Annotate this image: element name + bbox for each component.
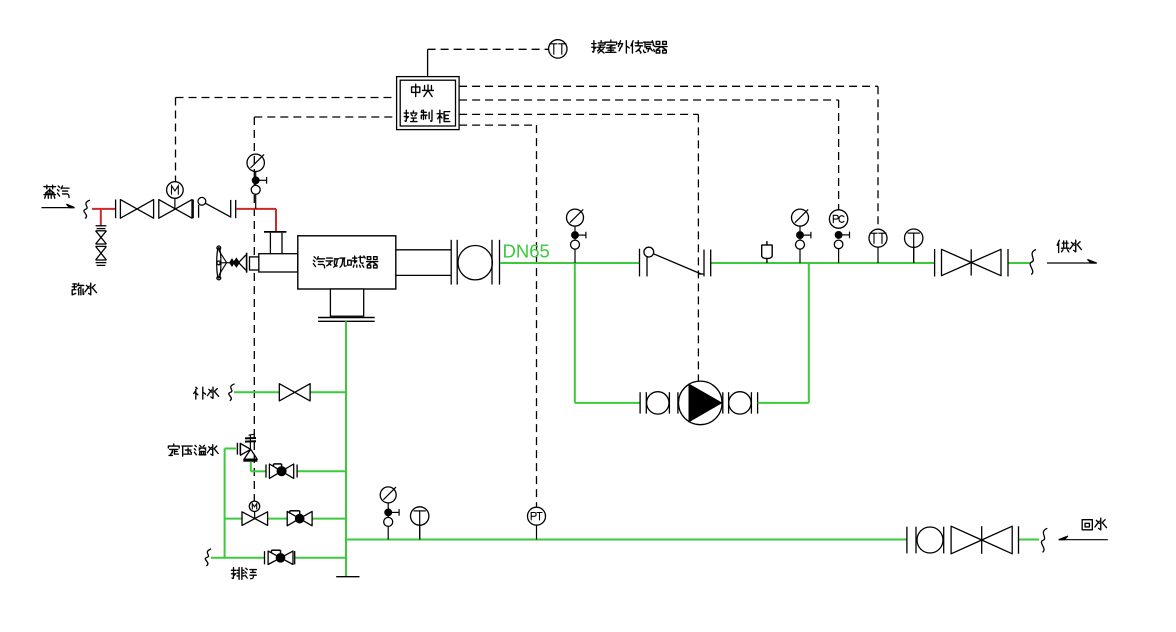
- return flow arrow: [1059, 539, 1108, 541]
- label bu-shui (make-up water): [194, 387, 206, 399]
- signal wire cabinet->pump riser (dashed): [459, 113, 698, 115]
- thermometer T on return: [419, 525, 421, 539]
- automatic air vent: [766, 241, 768, 245]
- heater pedestal: [330, 289, 363, 316]
- cabinet label line2 (kong-zhi-gui): [404, 110, 417, 121]
- outlet flange pair 2: [491, 240, 493, 285]
- steam pipe to heater (red): [236, 208, 276, 210]
- gate valve V1 (steam): [120, 200, 153, 219]
- handwheel spokes: [219, 251, 227, 263]
- pipe break squiggle (steam inlet): [84, 200, 90, 218]
- pump suction flange 2: [668, 392, 670, 413]
- return gate valve: [951, 526, 1012, 554]
- overflow header (green): [225, 448, 236, 450]
- heater outlet pipe: [396, 249, 451, 251]
- heater steam inlet nozzle: [269, 233, 271, 254]
- pressure gauge stack on steam pipe: [247, 154, 264, 171]
- return pipe end (green): [1019, 539, 1040, 541]
- handwheel: [217, 248, 221, 279]
- motor actuator M (overflow): [254, 511, 256, 518]
- central control cabinet outer box: [397, 77, 460, 130]
- supply pipe DN65 (green): [500, 262, 640, 264]
- pressure transmitter PT: [536, 525, 538, 539]
- pump discharge flange: [722, 392, 724, 413]
- relief valve body: [241, 444, 258, 460]
- label ding-ya-yi-shui (pressure overflow): [168, 444, 179, 455]
- relief valve seat bar: [243, 460, 257, 462]
- label zheng-qi (steam): [44, 185, 56, 198]
- heater valve flange bar: [246, 253, 248, 273]
- circulation pump: [679, 381, 723, 425]
- motor actuator M of V2: [174, 198, 176, 209]
- heater valve cone: [239, 255, 246, 270]
- pump loop pipe left (green): [574, 263, 576, 403]
- outlet flexible joint: [458, 246, 492, 280]
- label shu-shui (drain): [72, 283, 84, 295]
- thermometer T on supply: [913, 247, 915, 263]
- return flexible joint: [917, 527, 943, 553]
- overflow motor valve: [242, 512, 268, 526]
- supply pipe mid (green): [711, 262, 935, 264]
- pipe break squiggle (supply outlet): [1030, 250, 1036, 275]
- steam pipe (red): [92, 208, 116, 210]
- signal wire cabinet->steam motor valve (dashed): [176, 97, 397, 99]
- ball valve B: [287, 511, 312, 525]
- pump loop pipe right (green): [758, 402, 809, 404]
- signal wire to outdoor sensor (dashed): [428, 48, 549, 50]
- cabinet label line1 (zhong-yang): [412, 84, 420, 96]
- supply pipe end (green): [1008, 262, 1030, 264]
- central control cabinet inner box: [400, 80, 455, 126]
- return flange 2: [943, 527, 945, 554]
- pressure gauge stack 1 on supply: [567, 209, 584, 226]
- label pai-wu (blowdown): [231, 568, 244, 580]
- blowdown pipe (green): [211, 557, 265, 559]
- overflow row2 pipe (green): [225, 518, 242, 520]
- pressure controller PC: [829, 210, 847, 228]
- label jie-shi-wai-chuan-gan-qi: [592, 41, 605, 53]
- outdoor temperature transmitter TT: [549, 40, 567, 58]
- pipe break squiggle (blowdown): [205, 549, 211, 566]
- supply globe valve: [934, 249, 936, 277]
- heater steam inlet flange: [264, 231, 286, 233]
- pump suction flange: [639, 392, 641, 413]
- swing check valve (steam): [198, 205, 200, 218]
- label gong-shui (supply water): [1057, 240, 1069, 252]
- relief valve spring: [249, 435, 251, 450]
- return pipe (green): [346, 539, 907, 541]
- swing check valve (supply): [639, 249, 641, 277]
- pipe break squiggle (make-up): [229, 384, 235, 401]
- riser bottom drain tick: [336, 576, 359, 578]
- make-up pipe (green): [234, 391, 279, 393]
- steam flow arrow: [42, 207, 75, 209]
- heater base plate: [318, 317, 375, 319]
- pump discharge flange 2: [750, 392, 752, 413]
- heater body (qi-dong-jia-re-qi): [298, 236, 396, 289]
- heater steam chamber: [259, 254, 298, 272]
- label hui-shui (return water): [1082, 520, 1092, 530]
- heater valve stem: [227, 262, 230, 264]
- pump suction flexible joint: [647, 392, 669, 414]
- signal wire cabinet->PC riser (dashed): [459, 99, 838, 101]
- overflow outlet pipe (green): [250, 462, 252, 472]
- steam trap / drain hourglass: [96, 225, 107, 227]
- signal wire cabinet->overflow motor valve (dashed): [254, 116, 396, 118]
- pipe break squiggle (return inlet): [1041, 528, 1047, 552]
- blowdown ball valve C: [264, 551, 266, 564]
- pressure gauge stack on return: [380, 487, 396, 503]
- temperature transmitter TT on supply: [877, 247, 879, 263]
- outlet flange pair: [450, 240, 452, 285]
- overflow ball valve A: [265, 465, 267, 478]
- return flange: [906, 527, 908, 554]
- supply flow arrow: [1047, 262, 1097, 264]
- svg-text:DN65: DN65: [503, 241, 550, 262]
- heater body label: [313, 257, 324, 268]
- heater valve packing (black): [230, 258, 240, 267]
- signal wire cabinet->PT riser (dashed): [459, 124, 536, 126]
- make-up valve: [279, 384, 310, 401]
- pump discharge flexible joint: [729, 392, 751, 414]
- heater drain riser (green): [345, 321, 347, 576]
- heater control valve bonnet: [250, 257, 259, 270]
- signal wire cabinet->TT riser (dashed): [459, 85, 878, 87]
- flange of gate valve V1: [115, 200, 117, 219]
- pressure gauge stack 2 on supply: [792, 209, 809, 226]
- relief valve flange: [236, 443, 238, 455]
- steam drain branch pipe (red): [100, 209, 102, 226]
- motorized valve V2 (steam): [159, 200, 192, 219]
- wire cabinet top stub: [427, 49, 429, 76]
